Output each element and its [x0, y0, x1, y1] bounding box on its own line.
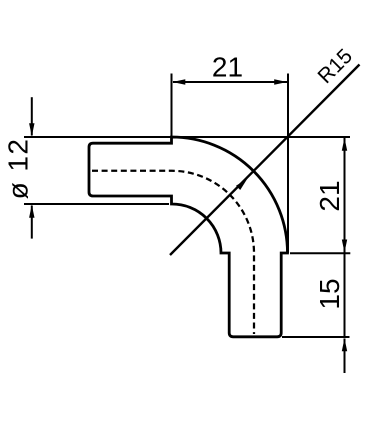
svg-text:15: 15 — [314, 278, 345, 309]
svg-text:ø 12: ø 12 — [3, 138, 34, 200]
svg-text:21: 21 — [314, 180, 345, 211]
svg-text:21: 21 — [212, 52, 243, 83]
